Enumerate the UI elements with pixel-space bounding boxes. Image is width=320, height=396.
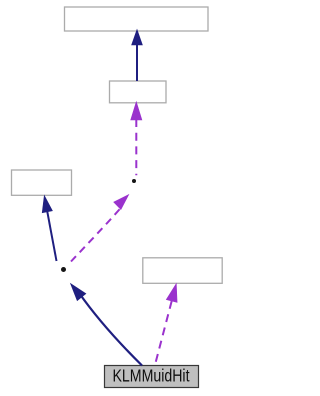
junction dot lower (point node) [61,267,66,272]
node box right (empty class box) [143,258,222,284]
inheritance arrow E3 (solid blue, lower junction to left box) [42,196,56,262]
junction dot upper (point node) [132,179,136,183]
node KLMMuidHit (current class, grey filled) [105,366,199,388]
usage arrow E2 (dashed purple, upper junction dot to box2) [131,102,142,175]
node box left (empty class box) [12,170,72,195]
inheritance arrow E5 (solid blue, KLMMuidHit to lower junction) [71,284,143,366]
usage arrow E4 (dashed purple, lower junction to upper junction dot) [71,195,129,262]
svg-text:KLMMuidHit: KLMMuidHit [113,365,190,385]
node box top (empty class box) [65,7,209,31]
usage arrow E6 (dashed purple, KLMMuidHit to right box) [155,284,177,364]
inheritance arrow E1 (solid blue, box2 to top box) [132,30,143,82]
node box second (empty class box) [110,81,167,103]
